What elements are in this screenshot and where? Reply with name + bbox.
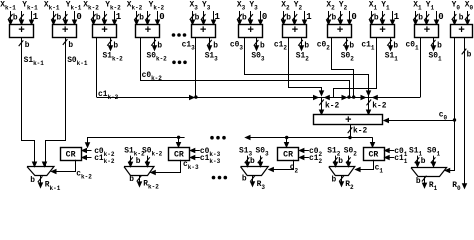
mux M4 (result R_2 select) (329, 167, 355, 176)
wire Y2 input arrow (340, 11, 342, 25)
wire feed drop into CR2 (178, 137, 180, 147)
wire c0_1 stub into CR4 (385, 150, 395, 152)
wire S01 into mux (433, 156, 435, 167)
wire S1k-2 into mux (130, 156, 132, 167)
svg-text:+: + (247, 25, 254, 37)
svg-text:b: b (68, 41, 73, 50)
wire sum output S01 (433, 38, 435, 51)
svg-text:b: b (13, 14, 18, 23)
svg-text:b: b (467, 51, 472, 60)
ellipsis (repeated CR stages) (210, 136, 214, 140)
svg-text:b: b (338, 157, 343, 166)
svg-text:b: b (242, 175, 247, 184)
wire c0_k-2 carry (adder 4) (141, 38, 350, 98)
wire S03 into mux (260, 156, 262, 167)
junction adder output on bus (348, 136, 351, 139)
wire carry-in constant arrow (349, 11, 351, 25)
wire c_2 select from CR3 to mux M3 (269, 160, 294, 170)
wire S12 into mux (335, 156, 337, 167)
svg-text:b: b (421, 157, 426, 166)
adder U8 (S02 adder) (328, 25, 352, 38)
wire c1_k-2 stub into CR1 (82, 157, 92, 159)
wire Y1 input arrow (382, 11, 384, 25)
wire Yk-2 input arrow (147, 11, 149, 25)
wire X3 input arrow (192, 11, 194, 25)
svg-text:b: b (459, 14, 464, 23)
svg-text:1: 1 (306, 12, 312, 22)
wire Y3 input arrow (203, 11, 205, 25)
wire carry-in constant arrow (213, 11, 215, 25)
svg-text:b: b (260, 41, 265, 50)
wire Xk-1 input arrow (10, 11, 12, 25)
wire carry-in constant arrow (392, 11, 394, 25)
svg-text:b: b (349, 41, 354, 50)
adder U3 (S1k-2 adder) (93, 25, 117, 38)
adder U5 (S13 adder) (192, 25, 216, 38)
wire resolved-carry bus (246, 137, 373, 139)
adder U7 (S12 adder) (283, 25, 307, 38)
wire X1 input arrow (371, 11, 373, 25)
wire sum output S1k-2 (110, 38, 112, 51)
CR block CR3 (278, 148, 299, 161)
svg-text:CR: CR (368, 151, 378, 160)
wire R0 sum line (464, 38, 466, 189)
wire c0_3 carry (adder 6) (245, 38, 369, 96)
wire carry-in constant arrow (157, 11, 159, 25)
wire X2 input arrow (328, 11, 330, 25)
svg-text:b: b (416, 177, 421, 186)
svg-text:+: + (424, 25, 431, 37)
wire Yk-1 input arrow (65, 11, 67, 25)
svg-text:+: + (200, 25, 207, 37)
wire R_3 output (252, 176, 254, 186)
wire Y1 input arrow (426, 11, 428, 25)
svg-text:0: 0 (159, 12, 164, 22)
wire c0_k-2 stub into CR1 (82, 150, 92, 152)
wire carry-in constant arrow (436, 11, 438, 25)
svg-text:CR: CR (283, 151, 293, 160)
adder U6 (S03 adder) (239, 25, 263, 38)
wire c0_2 stub into CR3 (299, 150, 309, 152)
wire S0_k-1 sum (to result mux R_k-1) (46, 38, 66, 167)
svg-text:b: b (139, 14, 144, 23)
wire X2 input arrow (283, 11, 285, 25)
wire sum output S0k-2 (154, 38, 156, 51)
wire sum output S13 (209, 38, 211, 51)
junction feed to CR2 (177, 136, 180, 139)
wire Xk-1 input arrow (53, 11, 55, 25)
svg-text:k-2: k-2 (325, 102, 339, 111)
svg-text:+: + (292, 25, 299, 37)
svg-text:b: b (437, 41, 442, 50)
wire c1 bus (to big adder left input) (97, 97, 421, 99)
wire Xk-2 input arrow (93, 11, 95, 25)
wire bus drop into CR4 (372, 138, 374, 148)
wire carry-in constant arrow (31, 11, 33, 25)
wire S1_k-1 sum (to result mux R_k-1) (22, 38, 35, 167)
svg-text:b: b (129, 175, 134, 184)
svg-text:b: b (374, 14, 379, 23)
CR block CR4 (364, 148, 385, 161)
svg-text:k-2: k-2 (372, 102, 386, 111)
wire big adder right input (c0 vector) (368, 97, 370, 114)
adder U10 (S01 adder) (415, 25, 439, 38)
wire sum output S03 (256, 38, 258, 51)
wire c0_1 carry (adder 10) (420, 38, 422, 98)
wire X0 input arrow (467, 11, 469, 25)
wire S13 into mux (247, 156, 249, 167)
adder U4 (S0k-2 adder) (136, 25, 160, 38)
svg-text:0: 0 (76, 12, 81, 22)
svg-text:k-2: k-2 (353, 126, 367, 135)
svg-text:b: b (393, 41, 398, 50)
svg-text:b: b (57, 14, 62, 23)
svg-text:b: b (242, 14, 247, 23)
adder U1 (S1k-1 adder) (10, 25, 34, 38)
wire c_k-3 select from CR2 to mux M2 (151, 160, 181, 173)
svg-text:b: b (304, 41, 309, 50)
ellipsis (repeated mux stages) (212, 176, 216, 180)
wire bus drop into CR3 (286, 138, 288, 148)
svg-text:+: + (18, 25, 25, 37)
svg-text:CR: CR (66, 151, 76, 160)
mux M3 (result R_3 select) (241, 167, 269, 176)
svg-text:b: b (213, 41, 218, 50)
svg-text:b: b (157, 41, 162, 50)
wire Yk-1 input arrow (21, 11, 23, 25)
svg-text:CR: CR (174, 151, 184, 160)
wire sum output S12 (301, 38, 303, 51)
ellipsis (repeated adders) (172, 33, 176, 37)
svg-text:+: + (101, 25, 108, 37)
wire R_k-2 output (139, 176, 141, 187)
wire c1_k-2 carry (adder 3) down to c1 bus (96, 38, 98, 98)
wire c1_1 stub into CR4 (385, 157, 395, 159)
mux M2 (result R_k-2 select) (124, 167, 154, 176)
wire c0 into big adder (384, 120, 455, 122)
svg-text:b: b (96, 14, 101, 23)
wire c0 carry line from adder U11 (445, 38, 454, 171)
svg-text:+: + (458, 25, 465, 37)
svg-text:b: b (286, 14, 291, 23)
wire carry-in constant arrow (74, 11, 76, 25)
wire c0_k-3 stub into CR2 (190, 150, 200, 152)
wire carry-in constant arrow (260, 11, 262, 25)
svg-text:0: 0 (438, 12, 443, 22)
wire c1_k-3 stub into CR2 (190, 157, 200, 159)
wire S0k-2 into mux (147, 156, 149, 167)
adder U9 (S11 adder) (371, 25, 395, 38)
wire carry-in constant arrow (304, 11, 306, 25)
svg-text:b: b (418, 14, 423, 23)
svg-text:+: + (145, 25, 152, 37)
wire Y0 input arrow (454, 11, 456, 25)
adder U2 (S0k-1 adder) (53, 25, 77, 38)
wire Y3 input arrow (250, 11, 252, 25)
wire Yk-2 input arrow (104, 11, 106, 25)
wire c1_2 stub into CR3 (299, 157, 309, 159)
junction bus to CR3 (285, 136, 288, 139)
wire Xk-2 input arrow (136, 11, 138, 25)
wire c0_2 carry (adder 8) (332, 38, 354, 98)
wire X3 input arrow (239, 11, 241, 25)
wire c1_3 carry (adder 5) (195, 38, 197, 98)
svg-text:b: b (332, 14, 337, 23)
svg-text:b: b (250, 157, 255, 166)
mux M5 (result R_1 select, c0 driven) (411, 168, 447, 177)
svg-text:b: b (332, 176, 337, 185)
wire sum output S11 (390, 38, 392, 51)
junction c0 tap (453, 118, 456, 121)
svg-text:b: b (195, 14, 200, 23)
junction c1_3 joins c1 bus (194, 95, 197, 98)
wire R_k-1 output (40, 176, 42, 188)
wire R_2 output (341, 176, 343, 186)
wire c1_2 carry (adder 7) (289, 38, 322, 96)
op-amp: big carry adder U12 (314, 115, 383, 125)
svg-text:0: 0 (351, 12, 356, 22)
wire c_1 select from CR4 to mux M4 (356, 160, 374, 170)
wire sum output S02 (346, 38, 348, 51)
wire X1 input arrow (415, 11, 417, 25)
CR block CR1 (61, 148, 82, 161)
wire c1_1 carry (adder 9) (334, 38, 377, 98)
CR block CR2 (169, 148, 190, 161)
wire c_k-2 select from CR1 to mux M1 (52, 160, 76, 172)
junction c0_k-2 joins c0 bus (347, 95, 350, 98)
wire Y2 input arrow (294, 11, 296, 25)
svg-text:+: + (62, 25, 69, 37)
svg-text:b: b (136, 157, 141, 166)
wire S02 into mux (348, 156, 350, 167)
wire big adder left input (c1 vector) (321, 97, 323, 114)
mux M1 (result R_k-1 select) (27, 167, 54, 176)
svg-text:b: b (113, 41, 118, 50)
wire carry-in constant arrow (114, 11, 116, 25)
ellipsis (repeated sum labels) (172, 61, 176, 65)
svg-text:+: + (379, 25, 386, 37)
wire resolved-carry feed to CR1/CR2 (88, 138, 185, 148)
svg-text:b: b (30, 176, 35, 185)
wire S11 into mux (417, 156, 419, 167)
wire big adder output (resolved carries) (350, 125, 352, 138)
svg-text:+: + (337, 25, 344, 37)
junction c0_2 joins c0 bus (352, 95, 355, 98)
svg-text:b: b (25, 41, 30, 50)
wire R_1 output (424, 176, 426, 187)
